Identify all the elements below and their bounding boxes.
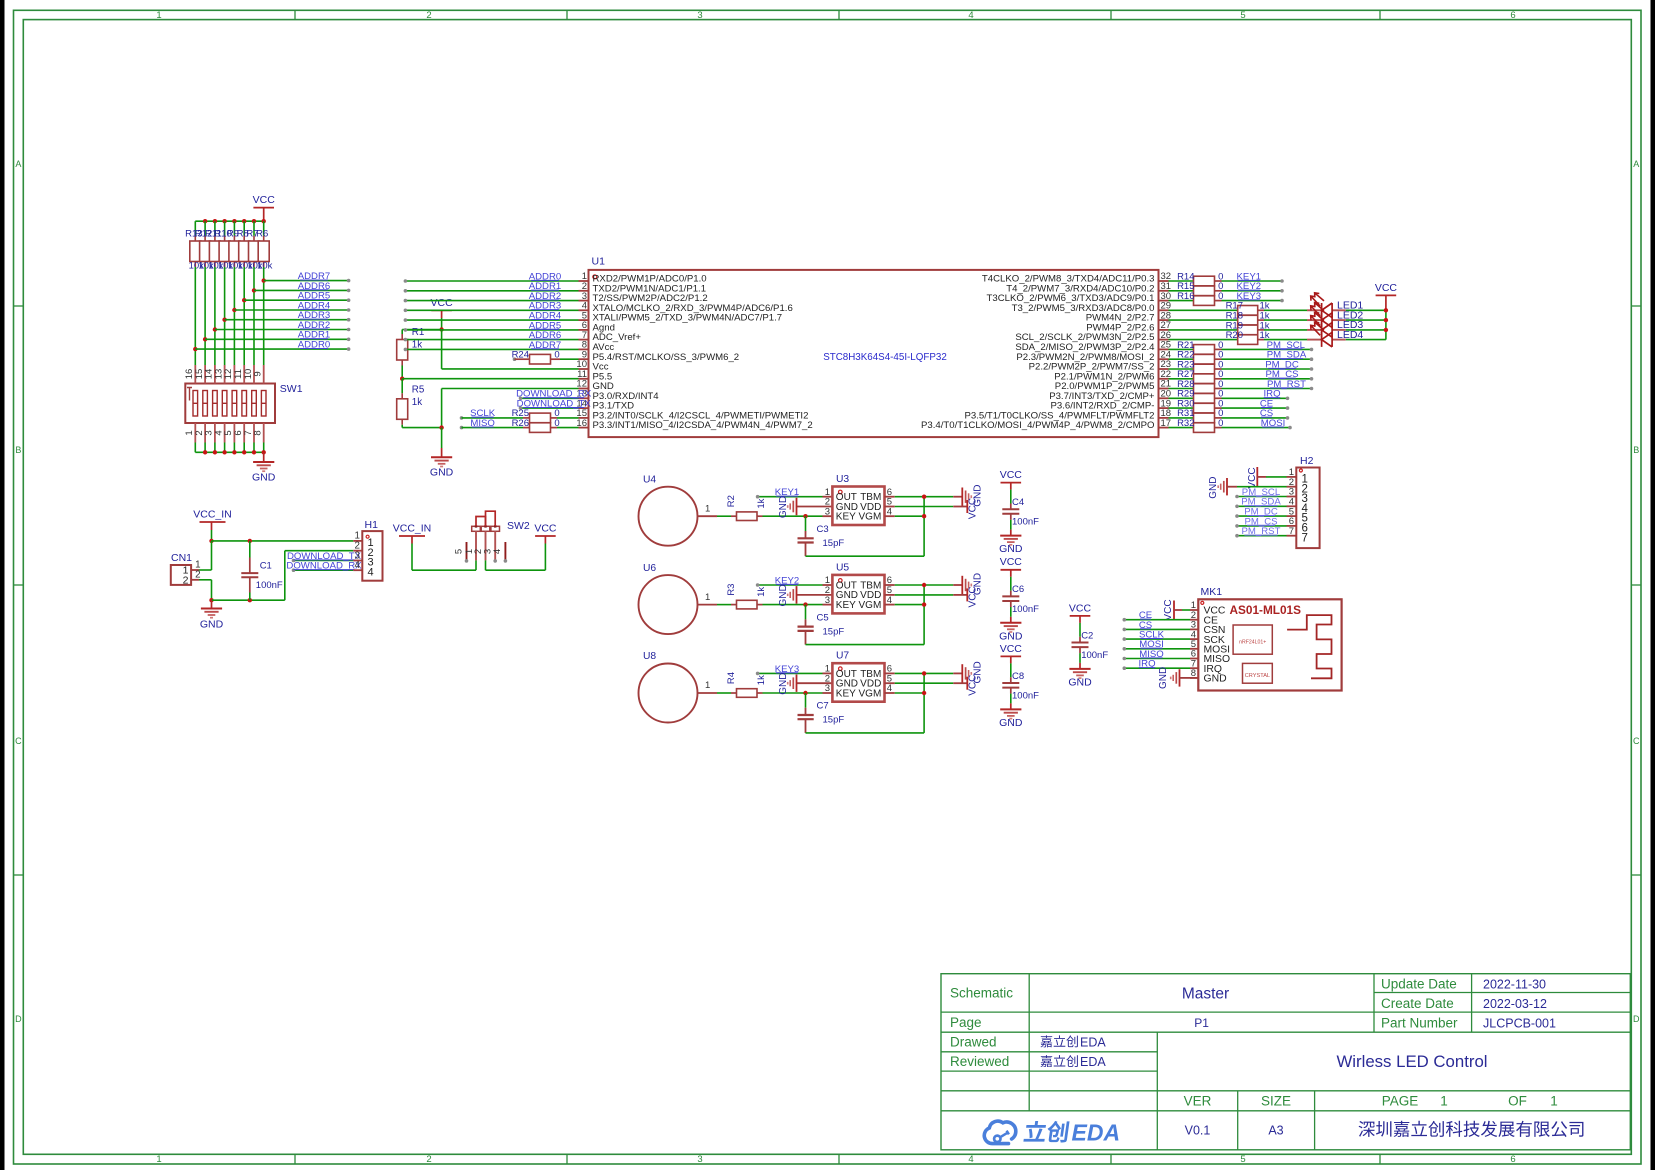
svg-text:6: 6 xyxy=(1510,10,1515,21)
wire R3 to U5 KEY pin xyxy=(763,604,823,606)
svg-text:100nF: 100nF xyxy=(1012,690,1039,701)
resistor R31 0 xyxy=(1177,408,1223,423)
svg-text:C1: C1 xyxy=(260,561,272,572)
wire U1 pin12 GND to vertical xyxy=(442,388,579,390)
svg-text:P1: P1 xyxy=(1194,1016,1209,1030)
svg-text:7: 7 xyxy=(1302,532,1308,544)
svg-text:VCC: VCC xyxy=(968,498,979,519)
svg-text:VCC: VCC xyxy=(431,297,454,309)
wire net DOWNLOAD_RX to H1 pin4 xyxy=(294,569,354,571)
ground symbol (MK1 pin8) xyxy=(1158,667,1199,689)
node ADDR0 tap junction xyxy=(193,347,197,351)
wire resistor R17 to LED1 xyxy=(1258,309,1264,311)
SW1 top pins 16-9 xyxy=(184,365,264,384)
resistor R2 1k xyxy=(726,495,767,520)
wire resistor R32 to net port xyxy=(1222,427,1291,429)
power flag VCC (C2) xyxy=(1069,602,1092,637)
wire resistor column 8 down to SW1 xyxy=(263,267,265,365)
power flag VCC (C6) xyxy=(1000,556,1023,591)
resistor R30 0 xyxy=(1177,399,1223,413)
capacitor C5 15pF xyxy=(798,605,845,645)
wire U3 TBM feedback loop xyxy=(895,496,954,498)
svg-text:5: 5 xyxy=(1240,1154,1245,1165)
svg-text:4: 4 xyxy=(492,549,503,554)
junction node VGM/C5 loop xyxy=(922,602,926,606)
svg-text:1k: 1k xyxy=(412,397,422,408)
wire SW2 pin3 to VCC xyxy=(485,560,487,570)
resistor R24 0 (U1 pin9) xyxy=(512,350,579,364)
power flag VCC (SW2) xyxy=(534,522,557,543)
svg-text:1k: 1k xyxy=(756,498,767,508)
svg-text:SW2: SW2 xyxy=(507,520,530,532)
svg-text:VCC: VCC xyxy=(968,675,979,696)
wire net ADDR7 to U1 pin 8 xyxy=(405,348,578,350)
wire resistor column 5 down to SW1 xyxy=(233,267,235,365)
svg-text:B: B xyxy=(1633,445,1639,455)
wire U1 pin 28 to resistor R18 xyxy=(1169,319,1238,321)
svg-text:C8: C8 xyxy=(1012,671,1024,682)
svg-text:H2: H2 xyxy=(1300,455,1314,467)
svg-text:1: 1 xyxy=(156,10,161,21)
svg-text:15pF: 15pF xyxy=(823,626,845,637)
svg-text:VCC: VCC xyxy=(1163,599,1174,620)
title block company name xyxy=(1359,1121,1584,1137)
wire pad to R4 xyxy=(717,692,731,694)
svg-text:100nF: 100nF xyxy=(1012,604,1039,615)
resistor R20 1k xyxy=(1226,330,1270,344)
svg-text:1: 1 xyxy=(705,680,710,691)
svg-text:VCC: VCC xyxy=(1000,643,1023,655)
svg-text:Schematic: Schematic xyxy=(950,986,1013,1001)
wire U1 pin 19 to resistor R30 xyxy=(1169,407,1194,409)
wire ADDR0 to port xyxy=(195,348,348,350)
svg-text:P3.3/INT1/MISO_4/I2CSDA_4/PWM4: P3.3/INT1/MISO_4/I2CSDA_4/PWM4N_4/PWM7_2 xyxy=(593,420,813,431)
capacitor C7 15pF xyxy=(798,693,845,733)
MK1 internal CRYSTAL box xyxy=(1243,663,1273,683)
wire ADDR2 to port xyxy=(215,329,349,331)
svg-text:U6: U6 xyxy=(643,563,656,574)
svg-text:GND: GND xyxy=(1158,667,1169,689)
svg-text:KEY: KEY xyxy=(836,600,856,611)
svg-text:JLCPCB-001: JLCPCB-001 xyxy=(1483,1016,1556,1030)
wire net KEY3 to U7 OUT pin xyxy=(758,672,823,674)
svg-text:5: 5 xyxy=(1240,10,1245,21)
wire net ADDR6 to U1 pin 7 xyxy=(405,339,578,341)
svg-text:9: 9 xyxy=(253,371,264,376)
frame column tick marks top xyxy=(294,10,296,19)
title block outer rectangle xyxy=(941,974,1630,1150)
wire CN1 pin1 to VCC_IN bus xyxy=(199,569,212,571)
MK1 internal nRF24L01+ box xyxy=(1233,625,1272,654)
svg-text:A3: A3 xyxy=(1268,1124,1283,1138)
power flag VCC (C8) xyxy=(1000,643,1023,678)
svg-text:C3: C3 xyxy=(817,524,829,535)
svg-text:3: 3 xyxy=(697,10,702,21)
svg-text:2: 2 xyxy=(426,1154,431,1165)
resistor R3 1k xyxy=(726,584,767,609)
svg-text:VCC: VCC xyxy=(253,194,276,206)
screen edge bar left xyxy=(0,0,5,1170)
junction dots on LED VCC rail xyxy=(1384,308,1388,312)
resistor R29 0 xyxy=(1177,389,1223,403)
wire resistor column 6 down to SW1 xyxy=(243,267,245,365)
svg-text:3: 3 xyxy=(825,683,830,694)
wire U1 pin 24 to resistor R22 xyxy=(1169,358,1194,360)
power flag VCC (R1 divider) xyxy=(431,297,454,330)
capacitor C6 100nF xyxy=(1002,584,1039,623)
wire resistor R22 to net port xyxy=(1222,358,1312,360)
wire net CS to MK1 pin 3 xyxy=(1124,628,1190,630)
wire junction to U1 pin11 P5.5 xyxy=(402,378,578,380)
frame row tick marks right xyxy=(1631,305,1641,307)
wire net PM_CS to H2 pin 6 xyxy=(1237,525,1287,527)
wire resistor column 4 down to SW1 xyxy=(224,267,226,365)
junction node C7 tap xyxy=(803,691,807,695)
wire pad to R3 xyxy=(717,604,731,606)
ground symbol at U3 GND pin xyxy=(778,496,832,518)
capacitor C1 100nF xyxy=(241,541,283,600)
wire LED2 to VCC rail xyxy=(1346,319,1386,321)
slide switch SW2 xyxy=(453,511,530,560)
junction node GND stem xyxy=(439,425,443,429)
svg-text:100nF: 100nF xyxy=(1012,517,1039,528)
ground symbol below C4 xyxy=(999,536,1023,556)
junction node TBM/C3 loop top xyxy=(922,495,926,499)
svg-text:15pF: 15pF xyxy=(823,538,845,549)
title block grid lines xyxy=(941,974,1630,1150)
svg-text:SW1: SW1 xyxy=(280,383,303,395)
title block label PAGE 1 OF 1 xyxy=(1382,1094,1558,1109)
ground symbol below C2 xyxy=(1068,669,1092,689)
wire U1 pin 29 to resistor R17 xyxy=(1169,309,1238,311)
no-connect port SW2 pin5 xyxy=(465,559,469,563)
wire net DOWNLOAD_TX to U1 pin14 xyxy=(521,407,579,409)
svg-text:C4: C4 xyxy=(1012,497,1024,508)
svg-text:Wirless LED Control: Wirless LED Control xyxy=(1336,1052,1487,1071)
wire resistor R19 to LED3 xyxy=(1258,329,1264,331)
svg-text:2022-11-30: 2022-11-30 xyxy=(1483,977,1546,991)
svg-text:VCC_IN: VCC_IN xyxy=(393,522,432,534)
svg-text:C: C xyxy=(15,736,22,746)
wire VCC_IN bus to H1 pin1 xyxy=(212,540,354,542)
svg-text:1k: 1k xyxy=(756,675,767,685)
power flag VCC (MK1 pin1) xyxy=(1163,599,1190,620)
svg-text:3: 3 xyxy=(825,507,830,518)
resistor R11 10k xyxy=(205,221,224,271)
svg-text:Part Number: Part Number xyxy=(1381,1015,1458,1030)
header H2 xyxy=(1287,455,1320,548)
junction node TBM/C7 loop top xyxy=(922,671,926,675)
svg-text:U3: U3 xyxy=(836,474,849,485)
resistor R6 10k xyxy=(256,221,272,271)
wire LED1 to VCC rail xyxy=(1346,309,1386,311)
wire resistor column 2 down to SW1 xyxy=(204,267,206,365)
touch ic U3 xyxy=(825,474,895,525)
ground symbol below SW1 xyxy=(252,452,276,483)
capacitor C8 100nF xyxy=(1002,671,1039,710)
svg-text:2022-03-12: 2022-03-12 xyxy=(1483,997,1547,1011)
wire ADDR5 to port xyxy=(244,299,348,301)
svg-text:2: 2 xyxy=(426,10,431,21)
svg-text:2: 2 xyxy=(195,569,200,580)
power flag VCC (C4) xyxy=(1000,469,1023,504)
wire CN1 pin2 to GND bus xyxy=(199,579,212,581)
wire U1 pin 21 to resistor R28 xyxy=(1169,388,1194,390)
power flag VCC (LED rail) xyxy=(1375,282,1398,311)
svg-text:VCC: VCC xyxy=(968,586,979,607)
junction node VCC_IN bus xyxy=(209,539,213,543)
wire U1 pin 30 to resistor R16 xyxy=(1169,300,1194,302)
resistor R18 1k xyxy=(1226,311,1270,325)
capacitor C2 100nF xyxy=(1072,630,1109,669)
svg-text:VCC_IN: VCC_IN xyxy=(193,508,232,520)
wire U1 pin 27 to resistor R19 xyxy=(1169,329,1238,331)
svg-text:VCC: VCC xyxy=(1000,469,1023,481)
svg-text:KEY: KEY xyxy=(836,512,856,523)
junction node TBM/C5 loop top xyxy=(922,583,926,587)
svg-text:KEY: KEY xyxy=(836,688,856,699)
wire U7 TBM feedback loop xyxy=(895,672,954,674)
resistor R28 0 xyxy=(1177,379,1223,393)
wire resistor R14 to net port xyxy=(1222,280,1283,282)
svg-text:0: 0 xyxy=(554,350,559,361)
wire ADDR6 to port xyxy=(254,289,349,291)
svg-text:B: B xyxy=(15,445,21,455)
dip switch SW1 body xyxy=(185,384,275,424)
svg-text:GND: GND xyxy=(778,584,789,606)
module MK1 AS01-ML01S body xyxy=(1198,586,1341,690)
no-connect port SW2 pin4 xyxy=(493,559,497,563)
svg-text:XTALI/PWM5_2/TXD_3/PWM4N/ADC7/: XTALI/PWM5_2/TXD_3/PWM4N/ADC7/P1.7 xyxy=(593,313,783,324)
resistor R8 10k xyxy=(237,221,253,271)
wire LED4 to VCC rail xyxy=(1346,339,1386,341)
svg-text:U8: U8 xyxy=(643,651,656,662)
svg-text:C5: C5 xyxy=(817,612,829,623)
svg-text:R32: R32 xyxy=(1177,418,1194,429)
wire VCC rail vertical xyxy=(1385,310,1387,339)
wire net PM_DC to H2 pin 5 xyxy=(1237,515,1287,517)
wire U5 VDD to VCC xyxy=(895,594,954,596)
svg-text:CN1: CN1 xyxy=(171,552,192,564)
wire net ADDR0 to U1 pin 1 xyxy=(405,280,578,282)
node ADDR2 tap junction xyxy=(213,327,217,331)
svg-text:7: 7 xyxy=(1289,526,1294,537)
svg-text:0: 0 xyxy=(554,418,559,429)
frame column tick marks bottom xyxy=(294,1154,296,1164)
U1 left pins 1-16 (stubs, numbers, names) xyxy=(576,271,812,431)
wire pad to R2 xyxy=(717,515,731,517)
mcu U1 body STC8H3K64S4-45I-LQFP32 xyxy=(589,256,1159,438)
title block value Drawed JLCEDA xyxy=(1041,1035,1078,1047)
svg-text:MK1: MK1 xyxy=(1201,586,1223,598)
junction dots on VCC bus xyxy=(203,219,207,223)
svg-text:R4: R4 xyxy=(726,672,737,684)
svg-text:8: 8 xyxy=(253,430,264,435)
wire LED3 to VCC rail xyxy=(1346,329,1386,331)
wire net DOWNLOAD_RX to U1 pin13 xyxy=(521,397,579,399)
node ADDR5 tap junction xyxy=(242,298,246,302)
resistor R13 10k xyxy=(185,221,204,271)
wire net IRQ to MK1 pin 7 xyxy=(1124,667,1190,669)
resistor R1 1k xyxy=(397,327,425,379)
wire resistor column 3 down to SW1 xyxy=(214,267,216,365)
wire VCC_IN to SW2 pin2 xyxy=(412,569,476,571)
wire U1 pin 26 to resistor R20 xyxy=(1169,339,1238,341)
svg-text:Master: Master xyxy=(1182,986,1229,1003)
wire net PM_SCL to H2 pin 3 xyxy=(1237,496,1287,498)
junction node C1 bottom xyxy=(248,598,252,602)
svg-text:AS01-ML01S: AS01-ML01S xyxy=(1230,603,1302,617)
svg-text:R26: R26 xyxy=(512,418,529,429)
resistor R7 10k xyxy=(246,221,262,271)
logo LCEDA text xyxy=(1023,1121,1069,1143)
node ADDR3 tap junction xyxy=(222,318,226,322)
touch ic U7 xyxy=(825,651,895,702)
wire U3 VDD to VCC xyxy=(895,506,954,508)
svg-text:1: 1 xyxy=(705,592,710,603)
capacitor C3 15pF xyxy=(798,516,845,556)
capacitor C4 100nF xyxy=(1002,497,1039,536)
svg-text:1k: 1k xyxy=(756,587,767,597)
svg-text:6: 6 xyxy=(1510,1154,1515,1165)
svg-text:3: 3 xyxy=(825,595,830,606)
svg-text:nRF24L01+: nRF24L01+ xyxy=(1239,640,1266,646)
power flag VCC at U3 VDD xyxy=(967,498,978,519)
wire U1 pin 31 to resistor R15 xyxy=(1169,290,1194,292)
power flag VCC at U7 VDD xyxy=(967,675,978,696)
svg-text:U4: U4 xyxy=(643,475,656,486)
svg-text:P5.4/RST/MCLKO/SS_3/PWM6_2: P5.4/RST/MCLKO/SS_3/PWM6_2 xyxy=(593,352,740,363)
svg-text:GND: GND xyxy=(999,717,1023,729)
svg-text:C2: C2 xyxy=(1081,630,1093,641)
svg-text:Page: Page xyxy=(950,1015,982,1030)
resistor R21 0 xyxy=(1177,340,1223,354)
node ADDR4 tap junction xyxy=(232,308,236,312)
resistor R32 0 xyxy=(1177,418,1223,432)
ground symbol below C8 xyxy=(999,709,1023,729)
svg-text:Reviewed: Reviewed xyxy=(950,1054,1009,1069)
wire net ADDR2 to U1 pin 3 xyxy=(405,300,578,302)
wire ADDR1 to port xyxy=(205,338,349,340)
wire resistor R23 to net port xyxy=(1222,368,1312,370)
wire SW1 bottom GND bus xyxy=(195,451,263,453)
touch pad U6 xyxy=(639,563,718,634)
resistor R26 0 (MISO to U1 pin16) xyxy=(460,418,579,432)
resistor R15 0 xyxy=(1177,281,1223,295)
header H1 xyxy=(353,519,382,580)
svg-text:EDA: EDA xyxy=(1080,1035,1106,1049)
svg-text:GND: GND xyxy=(430,467,454,479)
ground symbol at U5 GND pin xyxy=(778,584,832,606)
svg-text:EDA: EDA xyxy=(1080,1055,1106,1069)
svg-text:4: 4 xyxy=(968,10,973,21)
svg-text:GND: GND xyxy=(778,496,789,518)
wire resistor R31 to net port xyxy=(1222,417,1288,419)
resistor R25 0 (SCLK to U1 pin15) xyxy=(460,408,579,423)
svg-text:U5: U5 xyxy=(836,562,849,573)
resistor R12 10k xyxy=(195,221,214,271)
ground symbol at U7 GND pin xyxy=(778,673,832,695)
svg-text:R6: R6 xyxy=(256,229,268,240)
svg-text:OF: OF xyxy=(1508,1094,1527,1109)
resistor R14 0 xyxy=(1177,271,1223,285)
svg-text:VGM: VGM xyxy=(859,512,882,523)
wire U1 pin 20 to resistor R29 xyxy=(1169,397,1194,399)
svg-text:C: C xyxy=(1633,736,1640,746)
svg-text:R5: R5 xyxy=(412,384,425,395)
svg-text:D: D xyxy=(1633,1014,1640,1024)
svg-text:PAGE: PAGE xyxy=(1382,1094,1419,1109)
resistor R10 10k xyxy=(214,221,233,271)
wire resistor column 7 down to SW1 xyxy=(253,267,255,365)
svg-text:GND: GND xyxy=(1068,676,1092,688)
svg-text:VGM: VGM xyxy=(859,688,882,699)
svg-text:P3.4/T0/T1CLKO/MOSI_4/PWM4P_4/: P3.4/T0/T1CLKO/MOSI_4/PWM4P_4/PWM8_2/CMP… xyxy=(921,420,1155,431)
svg-text:GND: GND xyxy=(1204,674,1227,685)
resistor R23 0 xyxy=(1177,359,1223,373)
svg-text:VCC: VCC xyxy=(1069,602,1092,614)
svg-text:GND: GND xyxy=(999,630,1023,642)
ground symbol (H2 pin2) xyxy=(1208,477,1287,499)
junction node GND bus left xyxy=(209,598,213,602)
wire resistor R28 to net port xyxy=(1222,388,1312,390)
svg-text:10k: 10k xyxy=(257,260,273,271)
connector CN1 xyxy=(171,552,201,586)
svg-text:U1: U1 xyxy=(592,256,606,268)
wire VCC junction to R1 top xyxy=(402,329,441,331)
svg-text:VCC: VCC xyxy=(1247,467,1258,488)
wire net SCLK to MK1 pin 4 xyxy=(1124,638,1190,640)
svg-text:15pF: 15pF xyxy=(823,715,845,726)
wire resistor column 1 down to SW1 xyxy=(194,267,196,365)
wire net ADDR1 to U1 pin 2 xyxy=(405,290,578,292)
ground symbol at U5 TBM xyxy=(953,573,983,595)
power flag VCC (H2 pin1) xyxy=(1247,467,1287,489)
svg-text:100nF: 100nF xyxy=(256,580,283,591)
wire U1 pin 25 to resistor R21 xyxy=(1169,348,1194,350)
MK1 pins 1-8 xyxy=(1190,600,1230,684)
svg-text:GND: GND xyxy=(200,619,224,631)
svg-text:U7: U7 xyxy=(836,651,849,662)
touch pad U8 xyxy=(639,651,718,722)
wire U1 pin 18 to resistor R31 xyxy=(1169,417,1194,419)
junction node VCC/R1 xyxy=(439,327,443,331)
wire GND loop up to H1 pin2 xyxy=(284,551,286,601)
MK1 antenna meander xyxy=(1287,615,1331,678)
svg-text:5: 5 xyxy=(453,549,464,554)
svg-text:2: 2 xyxy=(183,574,189,586)
wire ADDR3 to port xyxy=(225,319,349,321)
wire VCC down to U1 pin10 xyxy=(441,330,443,369)
svg-text:R20: R20 xyxy=(1226,330,1243,341)
wire resistor R29 to net port xyxy=(1222,397,1288,399)
led LED2 xyxy=(1307,303,1363,328)
junction dots on SW1 GND bus xyxy=(203,450,207,454)
touch ic U5 xyxy=(825,562,895,613)
wire U1 pin 23 to resistor R23 xyxy=(1169,368,1194,370)
title block value Reviewed JLCEDA xyxy=(1041,1055,1078,1067)
svg-text:VGM: VGM xyxy=(859,600,882,611)
svg-text:R3: R3 xyxy=(726,584,737,596)
wire net CE to MK1 pin 2 xyxy=(1124,619,1190,621)
svg-text:100nF: 100nF xyxy=(1081,650,1108,661)
resistor R19 1k xyxy=(1226,320,1270,334)
wire net MISO to MK1 pin 6 xyxy=(1124,658,1190,660)
svg-text:VER: VER xyxy=(1184,1094,1212,1109)
wire resistor R21 to net port xyxy=(1222,348,1312,350)
resistor R9 10k xyxy=(227,221,243,271)
resistor R16 0 xyxy=(1177,291,1223,306)
